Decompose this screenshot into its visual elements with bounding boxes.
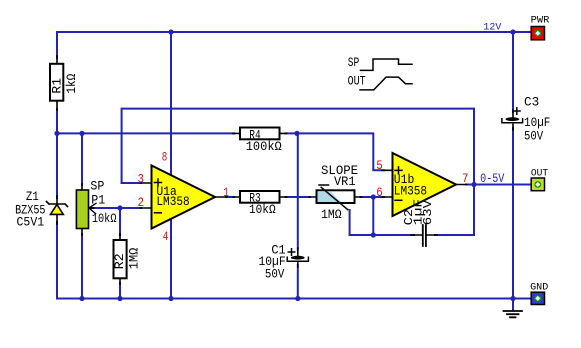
junction P1 bottom on rail bbox=[79, 296, 84, 301]
junction C1 bottom on rail bbox=[295, 296, 300, 301]
ground symbol bbox=[504, 299, 523, 318]
wire P1 wiper to U1a pin2 bbox=[92, 207, 141, 209]
svg-text:C3: C3 bbox=[524, 94, 539, 109]
svg-text:LM358: LM358 bbox=[394, 184, 427, 199]
wire pin6 junction down to C2 line bbox=[372, 197, 374, 235]
svg-text:5: 5 bbox=[376, 158, 383, 173]
svg-text:VR1: VR1 bbox=[334, 174, 356, 189]
wire 12V rail top bbox=[57, 32, 531, 58]
wire SP node: R1 bottom to R4 bbox=[57, 132, 234, 134]
resistor R4 bbox=[233, 128, 287, 155]
wire C1 vertical from R4 junction bbox=[297, 133, 299, 250]
wire C3 to ground rail bbox=[512, 128, 514, 299]
svg-text:PWR: PWR bbox=[531, 15, 550, 26]
junction R4 right / C1 bbox=[294, 131, 299, 136]
svg-text:LM358: LM358 bbox=[156, 194, 189, 209]
wire VR1 wiper drop bbox=[349, 210, 351, 235]
potentiometer P1 bbox=[76, 178, 116, 235]
svg-text:OUT: OUT bbox=[531, 169, 548, 180]
trimmer VR1 bbox=[309, 163, 362, 222]
svg-text:100kΩ: 100kΩ bbox=[246, 139, 282, 154]
wire U1a pin3 feedback from U1b output bbox=[122, 109, 474, 235]
svg-text:0-5V: 0-5V bbox=[480, 171, 504, 186]
wire C2 right segment to output node bbox=[435, 234, 474, 236]
svg-text:3: 3 bbox=[138, 172, 145, 187]
pin GND bbox=[530, 283, 548, 305]
capacitor C3 bbox=[502, 94, 551, 143]
svg-text:6: 6 bbox=[376, 185, 383, 200]
resistor R2 bbox=[112, 234, 142, 284]
wire C1 bottom to ground rail bbox=[297, 265, 299, 299]
svg-text:63V: 63V bbox=[421, 199, 435, 225]
wire R4 right to U1b pin5 bbox=[286, 133, 385, 170]
junction C3 tap on 12V rail bbox=[510, 29, 515, 34]
junction U1b pin6 / C2 drop bbox=[371, 194, 376, 199]
junction R2 top on wiper wire bbox=[117, 205, 122, 210]
wire U1b output to OUT pin bbox=[466, 184, 531, 186]
junction P1 top tap bbox=[79, 131, 84, 136]
wire R2 bottom to ground rail bbox=[119, 283, 121, 299]
svg-text:10kΩ: 10kΩ bbox=[92, 211, 117, 226]
junction U1a pin4 on rail bbox=[168, 296, 173, 301]
wire left vertical R1 bottom to ground rail bbox=[56, 109, 58, 299]
wire right vertical 12V to C3 bbox=[512, 32, 514, 112]
svg-text:7: 7 bbox=[462, 171, 469, 186]
capacitor C2 bbox=[402, 199, 437, 246]
wire ground rail bottom bbox=[57, 298, 531, 300]
wire P1 bottom to ground rail bbox=[81, 234, 83, 299]
zener diode Z1 bbox=[15, 189, 67, 230]
pin PWR bbox=[531, 15, 550, 39]
svg-text:50V: 50V bbox=[524, 129, 543, 144]
wire U1a output to R3 bbox=[226, 196, 234, 198]
resistor R3 bbox=[233, 190, 287, 217]
wire C2 left segment bbox=[350, 234, 414, 236]
svg-text:SP: SP bbox=[90, 178, 104, 193]
svg-text:1MΩ: 1MΩ bbox=[321, 207, 342, 222]
wire R3 to VR1 bbox=[286, 196, 311, 198]
capacitor C1 bbox=[259, 242, 309, 281]
svg-text:R1: R1 bbox=[50, 78, 65, 94]
waveform sketch SP bbox=[348, 56, 412, 71]
svg-text:R2: R2 bbox=[112, 253, 127, 269]
wire U1a pin4 drop to rail bbox=[170, 219, 172, 299]
wire VR1 to U1b pin6 bbox=[361, 196, 385, 198]
svg-text:1kΩ: 1kΩ bbox=[64, 74, 79, 94]
wire U1a pin8 drop from 12V rail bbox=[170, 32, 172, 175]
svg-text:GND: GND bbox=[530, 283, 548, 294]
pin OUT bbox=[531, 169, 548, 191]
junction R1 bottom bbox=[54, 131, 59, 136]
junction pin8 on 12V rail bbox=[168, 29, 173, 34]
wire P1 top drop bbox=[81, 133, 83, 185]
svg-text:1: 1 bbox=[223, 185, 229, 200]
svg-text:12V: 12V bbox=[483, 22, 502, 34]
junction R2 bottom on rail bbox=[117, 296, 122, 301]
junction U1b output node bbox=[471, 182, 476, 187]
svg-text:2: 2 bbox=[138, 195, 145, 210]
resistor R1 bbox=[50, 56, 79, 110]
wire U1a pin3 stub connection bbox=[122, 182, 141, 184]
waveform sketch OUT bbox=[348, 74, 412, 90]
op-amp U1b bbox=[382, 153, 467, 216]
svg-text:C5V1: C5V1 bbox=[17, 215, 45, 230]
junction C2 line tap bbox=[371, 232, 376, 237]
svg-text:4: 4 bbox=[163, 229, 169, 244]
svg-text:50V: 50V bbox=[265, 266, 285, 281]
svg-text:P1: P1 bbox=[91, 192, 105, 207]
svg-text:OUT: OUT bbox=[348, 74, 366, 88]
svg-text:1MΩ: 1MΩ bbox=[127, 248, 142, 270]
junction GND node on rail bbox=[510, 296, 515, 301]
svg-text:10kΩ: 10kΩ bbox=[249, 202, 276, 217]
svg-text:8: 8 bbox=[162, 149, 168, 164]
op-amp U1a bbox=[141, 166, 228, 229]
wire R2 top drop bbox=[119, 208, 121, 235]
svg-text:SP: SP bbox=[348, 56, 360, 70]
